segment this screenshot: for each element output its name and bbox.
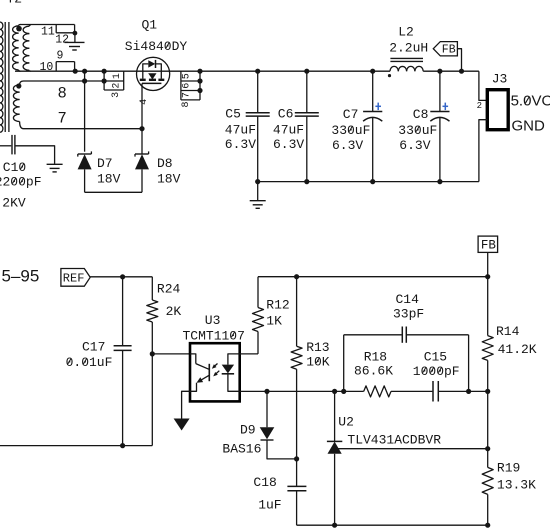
- svg-text:C15: C15: [424, 350, 447, 365]
- svg-text:C17: C17: [82, 339, 105, 354]
- pin tie rectangle pins 11-12: [55, 25, 57, 33]
- transformer secondary winding 2 (pins 8-7): [13, 85, 19, 92]
- junction C14 right: [466, 389, 471, 394]
- svg-text:86.6K: 86.6K: [354, 364, 393, 379]
- capacitor C18: [287, 485, 306, 487]
- svg-text:10: 10: [40, 61, 54, 74]
- earth ground C10: [47, 163, 63, 165]
- wire pin 12 to ground: [74, 33, 76, 42]
- net flag FB top: [433, 42, 457, 56]
- C7 plus sign: [375, 105, 381, 107]
- capacitor C6: [306, 71, 308, 112]
- Q1 pin box right: [180, 71, 182, 100]
- svg-text:11: 11: [41, 26, 55, 39]
- diode D7: [78, 153, 92, 155]
- svg-text:GND: GND: [512, 118, 546, 135]
- svg-text:TLV431ACDBVR: TLV431ACDBVR: [347, 433, 441, 448]
- junction drain 6: [197, 78, 202, 83]
- svg-text:6: 6: [181, 83, 192, 89]
- junction D9 C18: [294, 456, 299, 461]
- svg-text:6.3V: 6.3V: [273, 137, 304, 152]
- junction C6 rail: [304, 69, 309, 74]
- Q1 source arrow: [148, 73, 156, 79]
- svg-text:18V: 18V: [157, 172, 181, 187]
- svg-text:47uF: 47uF: [225, 122, 256, 137]
- svg-text:2: 2: [112, 83, 123, 89]
- svg-text:D9: D9: [240, 423, 256, 438]
- Q1 source/drain legs: [142, 71, 144, 78]
- winding 1 polarity dot: [16, 26, 22, 32]
- svg-text:7: 7: [181, 92, 192, 98]
- capacitor C15: [391, 390, 432, 392]
- svg-text:5.0VOUT: 5.0VOUT: [511, 92, 550, 109]
- wire lower gnd rail: [297, 524, 488, 526]
- junction Q1 left box rail: [102, 69, 107, 74]
- junction C7 rail: [370, 69, 375, 74]
- net flag REF: [61, 269, 90, 287]
- capacitor C7: [372, 71, 374, 111]
- wire FB to rail: [457, 49, 461, 71]
- Q1 gate bar: [142, 82, 161, 84]
- svg-text:330uF: 330uF: [398, 123, 437, 138]
- diode D9: [266, 391, 268, 427]
- svg-text:R18: R18: [364, 350, 387, 365]
- wire FB box stub: [487, 252, 489, 276]
- transistor Q1 body circle: [137, 57, 170, 90]
- svg-text:3: 3: [111, 92, 122, 98]
- svg-text:2: 2: [477, 101, 482, 111]
- svg-text:FB: FB: [442, 43, 456, 56]
- resistor R13: [296, 277, 298, 347]
- svg-text:8: 8: [58, 84, 67, 102]
- svg-text:R12: R12: [266, 297, 289, 312]
- junction D9 top: [264, 389, 269, 394]
- wire output gnd rail: [258, 181, 479, 183]
- capacitor C10: [0, 145, 11, 147]
- junction FB rail: [459, 69, 464, 74]
- svg-text:8: 8: [181, 101, 192, 107]
- wire U3 emitter to arrow: [182, 391, 190, 418]
- wire U2 ref: [338, 448, 488, 450]
- svg-text:BAS16: BAS16: [222, 442, 261, 457]
- wire rail to J3 pin2: [479, 71, 487, 100]
- junction C17 bottom: [120, 443, 125, 448]
- Q1 channel bars: [140, 79, 146, 81]
- junction D8 pin7: [139, 126, 144, 131]
- junction C8 gnd rail: [437, 179, 442, 184]
- svg-text:C6: C6: [278, 107, 294, 122]
- junction C6 gnd rail: [304, 179, 309, 184]
- svg-text:REF: REF: [63, 272, 85, 286]
- svg-text:2.2uH: 2.2uH: [389, 41, 428, 56]
- junction FB stub: [485, 274, 490, 279]
- svg-text:L2: L2: [398, 25, 414, 40]
- wire opto output net: [240, 390, 364, 392]
- svg-text:0.01uF: 0.01uF: [66, 355, 113, 370]
- svg-text:2K: 2K: [166, 304, 182, 319]
- junction drain rail: [197, 69, 202, 74]
- svg-text:U2: U2: [338, 415, 354, 430]
- svg-text:12: 12: [55, 34, 69, 47]
- earth ground pin 12: [65, 41, 85, 43]
- svg-text:Si4840DY: Si4840DY: [125, 39, 188, 54]
- junction U2 cathode: [332, 389, 337, 394]
- capacitor C14: [344, 334, 402, 336]
- svg-text:33pF: 33pF: [393, 307, 424, 322]
- resistor R12: [253, 308, 264, 332]
- junction C5 rail: [255, 69, 260, 74]
- resistor R19: [482, 467, 493, 494]
- junction D7 branch w2: [82, 78, 87, 83]
- svg-text:47uF: 47uF: [273, 122, 304, 137]
- capacitor C17: [122, 277, 124, 345]
- svg-text:10K: 10K: [306, 354, 330, 369]
- svg-text:6.3V: 6.3V: [399, 138, 430, 153]
- svg-text:1: 1: [112, 73, 123, 79]
- wire Q1 gate pin 4: [141, 83, 143, 128]
- U3 phototransistor: [190, 354, 196, 364]
- svg-text:7: 7: [58, 109, 67, 127]
- svg-text:1uF: 1uF: [258, 498, 281, 513]
- wire winding2 top: [24, 80, 105, 82]
- junction C7 gnd rail: [370, 179, 375, 184]
- svg-text:1K: 1K: [266, 314, 282, 329]
- resistor R24: [151, 277, 153, 300]
- junction drain 7: [197, 88, 202, 93]
- svg-text:6.3V: 6.3V: [225, 137, 256, 152]
- svg-text:R13: R13: [306, 340, 329, 355]
- svg-text:R14: R14: [496, 324, 520, 339]
- inductor L2: [390, 57, 423, 59]
- junction Q1 left box w2: [102, 78, 107, 83]
- capacitor C8: [439, 71, 441, 111]
- resistor R18: [364, 386, 391, 397]
- U3 light arrows: [213, 364, 218, 368]
- svg-text:9: 9: [57, 50, 64, 63]
- U3 LED: [228, 354, 240, 365]
- svg-text:T2: T2: [7, 0, 23, 6]
- wire J3 pin1 to gnd rail: [479, 120, 487, 182]
- junction D7 branch rail: [82, 69, 87, 74]
- svg-text:C14: C14: [396, 292, 420, 307]
- svg-text:6.3V: 6.3V: [332, 138, 363, 153]
- junction pin 12: [73, 31, 78, 36]
- junction R13 top: [294, 274, 299, 279]
- winding 2 polarity dot: [16, 83, 21, 88]
- Q1 body diode: [143, 64, 149, 71]
- junction C14 left: [341, 389, 346, 394]
- wire U3 to R12: [240, 353, 258, 355]
- wire lower left gnd: [0, 445, 152, 447]
- junction C8 rail: [437, 69, 442, 74]
- Q1 pin box left: [103, 71, 105, 90]
- svg-text:R19: R19: [497, 461, 520, 476]
- net box FB lower: [478, 236, 498, 252]
- diode D8: [135, 153, 149, 155]
- svg-text:2KV: 2KV: [2, 196, 26, 211]
- junction U2 ref: [485, 446, 490, 451]
- wire feedback rail: [258, 276, 488, 278]
- junction C17 top: [120, 274, 125, 279]
- power arrow ground: [174, 419, 190, 431]
- svg-text:1000pF: 1000pF: [413, 364, 460, 379]
- C8 plus sign: [443, 105, 449, 107]
- junction R24 opto: [150, 351, 155, 356]
- resistor R14: [487, 277, 489, 336]
- wire R24 to U3: [152, 353, 190, 355]
- svg-text:5–95: 5–95: [2, 266, 40, 285]
- svg-text:330uF: 330uF: [331, 123, 370, 138]
- wire C14 left edge: [343, 335, 345, 392]
- svg-text:C8: C8: [413, 107, 429, 122]
- svg-text:TCMT1107: TCMT1107: [183, 328, 245, 343]
- svg-text:J3: J3: [492, 71, 508, 86]
- transformer core: [4, 22, 6, 132]
- svg-text:U3: U3: [205, 313, 221, 328]
- svg-text:41.2K: 41.2K: [498, 342, 537, 357]
- junction U2 anode gnd: [332, 523, 337, 528]
- svg-text:4: 4: [139, 99, 150, 105]
- svg-text:D8: D8: [157, 156, 173, 171]
- svg-text:C7: C7: [343, 107, 359, 122]
- L2 phase dot: [388, 74, 391, 77]
- junction R19 bottom: [485, 523, 490, 528]
- svg-text:18V: 18V: [97, 172, 121, 187]
- svg-text:5: 5: [181, 73, 192, 79]
- pin tie rectangle pins 9-10: [56, 61, 74, 63]
- capacitor C5: [257, 71, 259, 112]
- transformer primary winding: [0, 22, 3, 29]
- svg-text:R24: R24: [157, 281, 181, 296]
- svg-text:C18: C18: [253, 475, 276, 490]
- transformer secondary winding 1 (pins 11-10): [13, 26, 19, 33]
- wire D7 branch: [84, 71, 86, 152]
- svg-text:D7: D7: [97, 156, 113, 171]
- earth ground C5: [257, 182, 259, 201]
- junction fb divider mid: [485, 389, 490, 394]
- junction rect 9-10 on rail: [73, 69, 78, 74]
- svg-text:C10: C10: [3, 160, 26, 175]
- shunt regulator U2: [334, 391, 336, 441]
- svg-text:Q1: Q1: [142, 18, 158, 33]
- wire pin 11: [20, 24, 75, 26]
- svg-text:FB: FB: [481, 239, 497, 253]
- connector J3: [487, 90, 508, 130]
- svg-text:C5: C5: [225, 107, 241, 122]
- wire main rail: [15, 70, 390, 72]
- wire pin 7 winding2 bottom: [24, 128, 143, 130]
- wire D7-D8 anodes: [85, 191, 142, 193]
- optocoupler U3 box: [190, 343, 240, 401]
- svg-text:13.3K: 13.3K: [497, 477, 536, 492]
- wire C14 right edge: [468, 335, 470, 392]
- junction C5 gnd rail: [255, 179, 260, 184]
- wire REF rail: [90, 276, 152, 278]
